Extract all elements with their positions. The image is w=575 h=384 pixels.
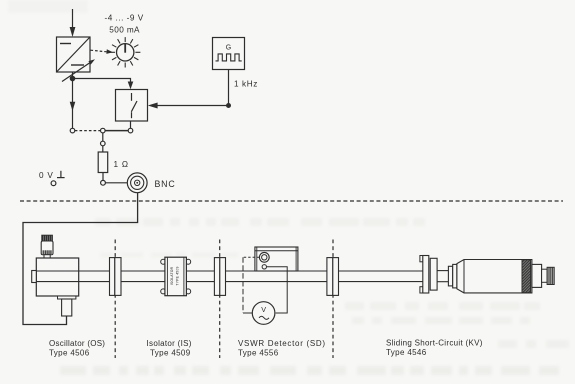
sliding short KV rear step	[532, 264, 542, 287]
wire resistor to T5	[102, 173, 104, 181]
resistor R1 (1 ohm)	[98, 152, 108, 173]
wire: junction down to terminal T1 with arrowhead	[72, 79, 74, 129]
plug T4	[101, 141, 106, 146]
isolator IS left bolt bumps	[161, 259, 166, 264]
svg-text:1 kHz: 1 kHz	[234, 80, 258, 89]
svg-text:VSWR Detector (SD): VSWR Detector (SD)	[238, 339, 326, 348]
flange pair F3 (detector/short joint)	[327, 258, 333, 296]
adjustment knob symbol	[110, 37, 140, 67]
svg-text:V: V	[261, 305, 266, 314]
svg-text:Sliding Short-Circuit (KV): Sliding Short-Circuit (KV)	[386, 339, 483, 348]
svg-text:Type 4509: Type 4509	[150, 349, 191, 358]
terminal T5	[101, 180, 106, 185]
terminal T2	[101, 128, 106, 133]
adjustability arrow across U1	[62, 63, 90, 82]
power supply U1 (variable DC supply box)	[57, 37, 91, 72]
VSWR detector output jack	[262, 265, 266, 269]
sliding short KV collars	[448, 266, 452, 286]
generator G1 (1 kHz square-wave)	[213, 38, 245, 70]
dashed separator line	[20, 200, 563, 202]
oscillator OS klystron base	[44, 255, 50, 258]
voltmeter V	[252, 302, 275, 325]
section divider dashed line D2	[219, 240, 221, 359]
isolator IS right bolt bumps	[186, 259, 191, 264]
wire T2 down to plug T4	[102, 133, 104, 141]
junction dot A	[70, 76, 76, 82]
wire: mains input	[72, 9, 74, 28]
dashed control link to knob	[91, 50, 107, 52]
sliding short KV waveguide stub	[437, 270, 448, 272]
BNC connector J1	[127, 173, 147, 193]
wire: junction A to modulator top	[73, 79, 131, 83]
isolator IS body	[165, 257, 187, 296]
svg-text:Type 4546: Type 4546	[386, 348, 427, 357]
wire to resistor	[102, 146, 104, 152]
sliding short KV shaft	[542, 269, 548, 282]
oscillator OS bottom flange	[58, 296, 76, 299]
lead jack to voltmeter	[267, 267, 288, 313]
arrowhead into power supply	[70, 27, 76, 37]
0 V earth terminal	[51, 171, 65, 186]
square-wave symbol	[216, 54, 242, 61]
svg-text:Oscillator (OS): Oscillator (OS)	[49, 339, 105, 348]
modulator switch S1	[116, 90, 148, 122]
wire: U1 bottom to junction	[72, 72, 74, 79]
oscillator OS klystron knurled cap	[42, 235, 53, 241]
wire: G1 to junction B	[228, 70, 230, 106]
svg-text:TYPE 4509: TYPE 4509	[175, 266, 179, 285]
flange pair F2 (isolator/detector joint)	[214, 258, 219, 296]
svg-text:BNC: BNC	[155, 179, 176, 189]
sliding short KV main cylinder	[457, 260, 532, 293]
oscillator OS main body	[36, 258, 78, 296]
svg-text:G: G	[226, 45, 231, 52]
waveguide upper line	[36, 270, 422, 272]
sliding short KV knurled band	[522, 260, 531, 293]
VSWR detector probe	[259, 252, 269, 262]
section divider dashed line D1	[114, 240, 116, 359]
wire T5 to BNC	[105, 182, 127, 184]
terminal T3	[128, 128, 133, 133]
wire: S1 bottom to terminal T3	[130, 121, 132, 128]
oscillator OS klystron body	[41, 241, 53, 255]
wire T2-T3	[105, 130, 128, 132]
flange pair F1 (oscillator/isolator joint)	[110, 258, 115, 296]
svg-text:0 V: 0 V	[39, 171, 54, 180]
svg-text:ISOLATOR: ISOLATOR	[170, 266, 174, 285]
arrowhead into modulator S1	[128, 82, 134, 90]
sliding short KV input flange	[420, 256, 423, 262]
sliding short KV knurled knob	[547, 267, 554, 284]
dashed lead probe to voltmeter	[243, 256, 259, 258]
oscillator OS tuning plunger	[62, 299, 72, 316]
dashed link T1-T2	[75, 130, 101, 132]
VSWR detector SD carriage	[255, 247, 298, 271]
junction dot B	[226, 103, 231, 108]
svg-text:500 mA: 500 mA	[109, 25, 140, 34]
wire: junction B to modulator, arrowhead left	[157, 105, 229, 107]
wire: coax cable BNC to oscillator plunger	[23, 193, 138, 325]
terminal T1	[70, 128, 75, 133]
svg-text:-4 ... -9 V: -4 ... -9 V	[105, 14, 144, 23]
svg-text:Isolator (IS): Isolator (IS)	[147, 339, 192, 348]
svg-text:Type 4506: Type 4506	[49, 349, 90, 358]
svg-text:Type 4556: Type 4556	[238, 349, 279, 358]
svg-text:1 Ω: 1 Ω	[114, 160, 129, 169]
section divider dashed line D3	[332, 240, 334, 359]
waveguide lower line	[36, 281, 422, 283]
oscillator OS left tab	[32, 271, 37, 283]
